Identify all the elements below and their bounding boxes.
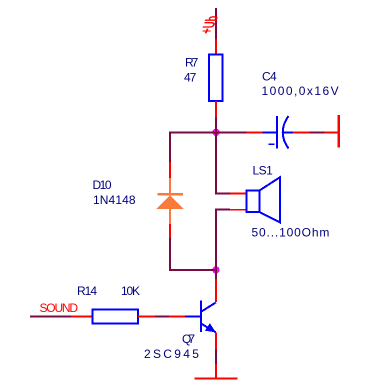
diode D10 pin top — [169, 162, 171, 178]
resistor R7 pin bottom — [215, 101, 217, 117]
transistor Q7 emitter arrow — [205, 323, 216, 332]
node junction dot bottom (collector net) — [212, 266, 219, 273]
wire sound input — [30, 315, 71, 317]
resistor R7 body — [209, 55, 223, 102]
terminal bar right — [337, 115, 340, 148]
ground bar — [195, 378, 238, 380]
svg-text:2SC945: 2SC945 — [144, 347, 201, 361]
speaker LS1 pin bottom — [230, 209, 246, 211]
diode D10 pin bottom — [169, 224, 171, 238]
svg-text:10K: 10K — [121, 284, 140, 298]
diode D10 cathode bar — [158, 193, 184, 196]
transistor Q7 collector pin — [215, 279, 217, 302]
wire collector from junction — [215, 270, 217, 279]
wire diode branch vertical bottom — [169, 238, 171, 270]
transistor Q7 emitter pin — [215, 332, 217, 349]
svg-text:D10: D10 — [93, 178, 112, 192]
transistor Q7 collector lead — [201, 303, 216, 312]
svg-text:47: 47 — [184, 71, 197, 85]
capacitor C4 minus sign — [269, 143, 275, 145]
ground pin — [215, 364, 217, 378]
capacitor C4 pin right — [293, 131, 310, 133]
wire diode branch vertical top — [169, 132, 171, 162]
capacitor C4 plate straight — [276, 116, 278, 149]
resistor R7 pin top — [215, 39, 217, 55]
wire emitter to ground — [215, 350, 217, 365]
speaker LS1 horn — [260, 177, 281, 222]
wire bottom rail (diode to collector junction) — [169, 269, 216, 271]
resistor R14 pin right — [138, 315, 155, 317]
svg-text:1N4148: 1N4148 — [93, 193, 136, 207]
resistor R14 body — [93, 310, 139, 324]
svg-text:LS1: LS1 — [253, 164, 274, 178]
terminal pin right — [325, 131, 339, 133]
diode D10 lead top (orange) — [169, 178, 171, 193]
wire top rail right (junction to C4) — [216, 131, 247, 133]
wire speaker bottom lead — [215, 209, 230, 211]
transistor Q7 base bar — [200, 301, 202, 333]
capacitor C4 lead left (blue) — [263, 131, 277, 133]
svg-text:SOUND: SOUND — [40, 301, 79, 315]
wire speaker branch vertical lower — [215, 210, 217, 271]
svg-text:R14: R14 — [77, 284, 97, 298]
capacitor C4 lead right (blue) — [284, 131, 294, 133]
diode D10 triangle — [156, 196, 184, 210]
svg-text:1000,0x16V: 1000,0x16V — [262, 84, 341, 98]
wire speaker branch vertical upper — [215, 132, 217, 194]
wire speaker top lead — [215, 193, 230, 195]
node junction dot top (net R7/C4/LS1/D10) — [212, 129, 219, 136]
capacitor C4 plate curved — [283, 116, 289, 149]
transistor Q7 emitter lead — [201, 324, 216, 333]
wire top rail left (junction to diode branch) — [169, 131, 216, 133]
transistor Q7 base pin — [169, 315, 185, 317]
wire R14 to base — [155, 315, 169, 317]
wire to right terminal — [310, 131, 325, 133]
svg-text:50...100Ohm: 50...100Ohm — [252, 226, 331, 240]
speaker LS1 pin top — [230, 193, 246, 195]
transistor Q7 base lead — [185, 315, 200, 317]
wire R7 to junction — [215, 117, 217, 133]
wire +Ub vertical top — [215, 8, 217, 39]
capacitor C4 pin left — [247, 131, 263, 133]
diode D10 lead bottom (orange) — [169, 209, 171, 224]
resistor R14 pin left — [71, 315, 92, 317]
svg-text:C4: C4 — [262, 70, 277, 84]
speaker LS1 driver box — [247, 191, 260, 213]
